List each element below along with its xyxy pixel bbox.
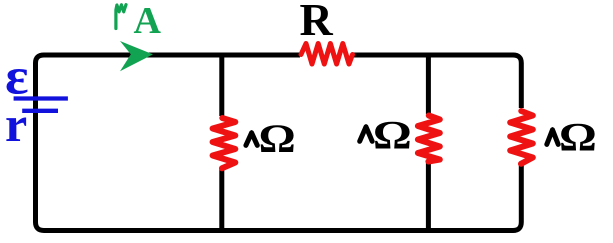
- svg-text:Ω: Ω: [559, 116, 597, 160]
- wire : branch 1 upper stub: [219, 53, 224, 117]
- svg-text:R: R: [300, 0, 334, 45]
- battery cell plates (long and short): [14, 99, 68, 111]
- wire : branch 1 lower stub: [219, 169, 224, 231]
- svg-text:Ω: Ω: [259, 117, 296, 161]
- resistor 8Ω branch 3 (vertical zigzag): [510, 111, 533, 164]
- wire : outer loop (top-left, left side, bottom, right-lower): [36, 55, 522, 231]
- label ۳ (Persian digit 3): [116, 5, 126, 29]
- resistor R (horizontal zigzag): [301, 44, 353, 65]
- label ۸ (Persian digit 8) branch 2: [360, 127, 373, 142]
- wire : branch 2 upper stub: [426, 53, 431, 115]
- resistor 8Ω branch 2 (vertical zigzag): [418, 116, 440, 162]
- wire : top-right segment with corner: [352, 55, 521, 108]
- resistor 8Ω branch 1 (vertical zigzag): [213, 118, 236, 168]
- svg-text:A: A: [134, 0, 162, 42]
- label ۸ (Persian digit 8) branch 1: [246, 133, 257, 146]
- svg-text:r: r: [5, 96, 27, 152]
- label ۸ (Persian digit 8) branch 3: [547, 130, 558, 145]
- wire : branch 2 lower stub: [426, 163, 431, 231]
- current arrow head (3A direction): [120, 41, 153, 71]
- svg-text:Ω: Ω: [373, 112, 412, 157]
